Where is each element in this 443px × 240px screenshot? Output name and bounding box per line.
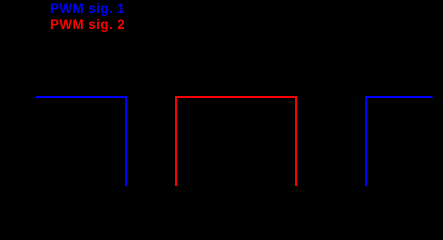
PWM signal 2 pulse (red): rising edge, high level, falling edge: [176, 97, 296, 186]
legend label PWM sig. 2: [50, 17, 125, 32]
PWM signal 1 first pulse (blue): high level then falling edge: [36, 97, 126, 186]
legend label PWM sig. 1: [50, 1, 125, 16]
PWM signal 1 second pulse (blue): rising edge then high level: [366, 97, 433, 186]
